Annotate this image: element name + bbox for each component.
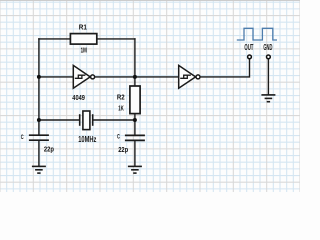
wire R2 bottom to node C (134, 114, 136, 136)
svg-text:4049: 4049 (72, 95, 85, 102)
ground (C1) (32, 166, 46, 173)
wire C2 to ground (134, 140, 136, 166)
svg-text:R1: R1 (79, 24, 87, 31)
wire crystal right lead (93, 119, 135, 121)
svg-text:OUT: OUT (244, 43, 253, 52)
wire U2 output to OUT (200, 59, 249, 77)
op-amp U1 (4049 inverter) (73, 65, 94, 88)
capacitor C1 plates (29, 135, 49, 140)
capacitor C2 plates (125, 135, 145, 140)
node C junction (crystal left / C1) (37, 118, 41, 122)
svg-text:GND: GND (263, 43, 272, 52)
node B junction (U1 out / R1 / R2) (133, 75, 137, 79)
wire R1 right lead to top-right corner (97, 38, 135, 40)
OUT pin terminal (248, 55, 252, 59)
resistor R1 (70, 34, 96, 45)
wire U1 output to U2 input (95, 76, 179, 78)
svg-text:C: C (117, 135, 120, 141)
svg-text:10MHz: 10MHz (78, 135, 96, 144)
wire left feedback vertical (38, 39, 40, 135)
crystal X1 10MHz (80, 111, 93, 130)
svg-text:22p: 22p (118, 147, 128, 154)
svg-text:1M: 1M (81, 47, 87, 54)
GND pin terminal (267, 55, 271, 59)
wire GND pin down (267, 59, 269, 94)
wire inverter U1 input (39, 76, 73, 78)
svg-text:C: C (21, 135, 24, 141)
wire C1 to ground (38, 140, 40, 166)
node D junction (crystal right / R2 / C2) (133, 118, 137, 122)
wire R1 left lead (39, 38, 71, 40)
svg-text:1K: 1K (118, 106, 124, 113)
svg-text:22p: 22p (44, 147, 54, 154)
node A junction (feedback / U1 input) (37, 75, 41, 79)
U2 hysteresis glyph (180, 75, 191, 78)
square wave glyph (237, 28, 277, 40)
wire right vertical R1 to node B (134, 39, 136, 86)
wire crystal left lead (39, 119, 80, 121)
U1 hysteresis glyph (75, 75, 86, 78)
svg-text:R2: R2 (117, 94, 125, 101)
ground (C2) (128, 166, 142, 173)
ground (GND pin) (261, 95, 275, 102)
op-amp U2 (inverter) (179, 65, 200, 88)
resistor R2 (130, 86, 140, 114)
